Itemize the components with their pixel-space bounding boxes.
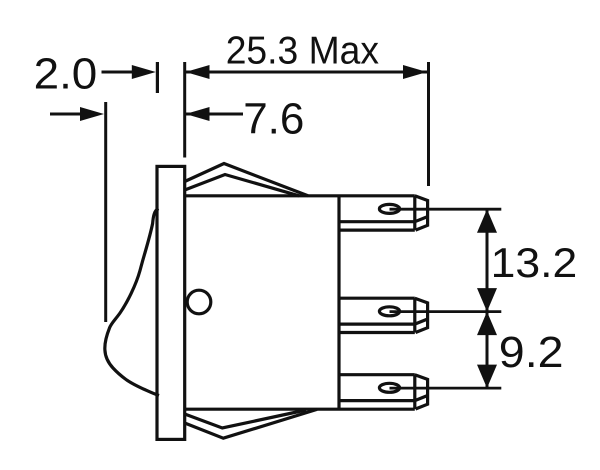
svg-text:9.2: 9.2 <box>499 329 564 377</box>
pivot circle on body <box>187 290 211 314</box>
dimension 13.2 top arrowhead <box>477 209 497 233</box>
rocker actuator curve <box>105 209 159 396</box>
dimension 9.2 bottom arrowhead <box>477 365 497 389</box>
svg-text:2.0: 2.0 <box>34 49 98 98</box>
dimension 7.6 line <box>186 113 244 116</box>
dimension 25.3 Max right arrowhead <box>403 65 427 79</box>
body top ridge outer line <box>185 164 308 196</box>
rocker front extension line <box>104 102 107 322</box>
dimension 2.0 leader line <box>102 71 134 74</box>
dimension 2.0 arrowhead <box>132 65 156 79</box>
dimension 25.3 Max line <box>186 71 428 74</box>
dimension 9.2 top arrowhead <box>477 312 497 336</box>
dimension 25.3 Max left arrowhead <box>186 65 210 79</box>
terminal T1 center line <box>390 208 502 211</box>
svg-text:7.6: 7.6 <box>243 95 304 144</box>
dimension 13.2 bottom arrowhead <box>477 288 497 312</box>
body bottom ridge lower line <box>185 409 317 438</box>
svg-text:13.2: 13.2 <box>491 239 578 286</box>
terminal T2 <box>339 298 428 332</box>
svg-text:25.3 Max: 25.3 Max <box>226 30 380 73</box>
dimension 9.2 line <box>486 312 489 389</box>
terminal T3 center line <box>390 387 502 390</box>
dimension 7.6 arrowhead <box>186 107 210 121</box>
body top ridge inner line <box>185 175 299 196</box>
rocker front arrowhead <box>80 107 104 121</box>
switch body outline <box>185 196 415 409</box>
terminal T1 <box>339 196 428 230</box>
dimension 13.2 line <box>486 209 489 311</box>
mounting flange (bezel plate) <box>157 166 185 439</box>
body rear extension line <box>427 62 430 186</box>
flange rear face extension line <box>183 62 186 158</box>
rocker front leader line <box>50 113 82 116</box>
terminal T3 <box>339 375 428 409</box>
dimension 2.0 tick (flange left face) <box>156 62 159 93</box>
terminal T2 center line <box>390 310 502 313</box>
body bottom ridge upper line <box>185 410 306 428</box>
